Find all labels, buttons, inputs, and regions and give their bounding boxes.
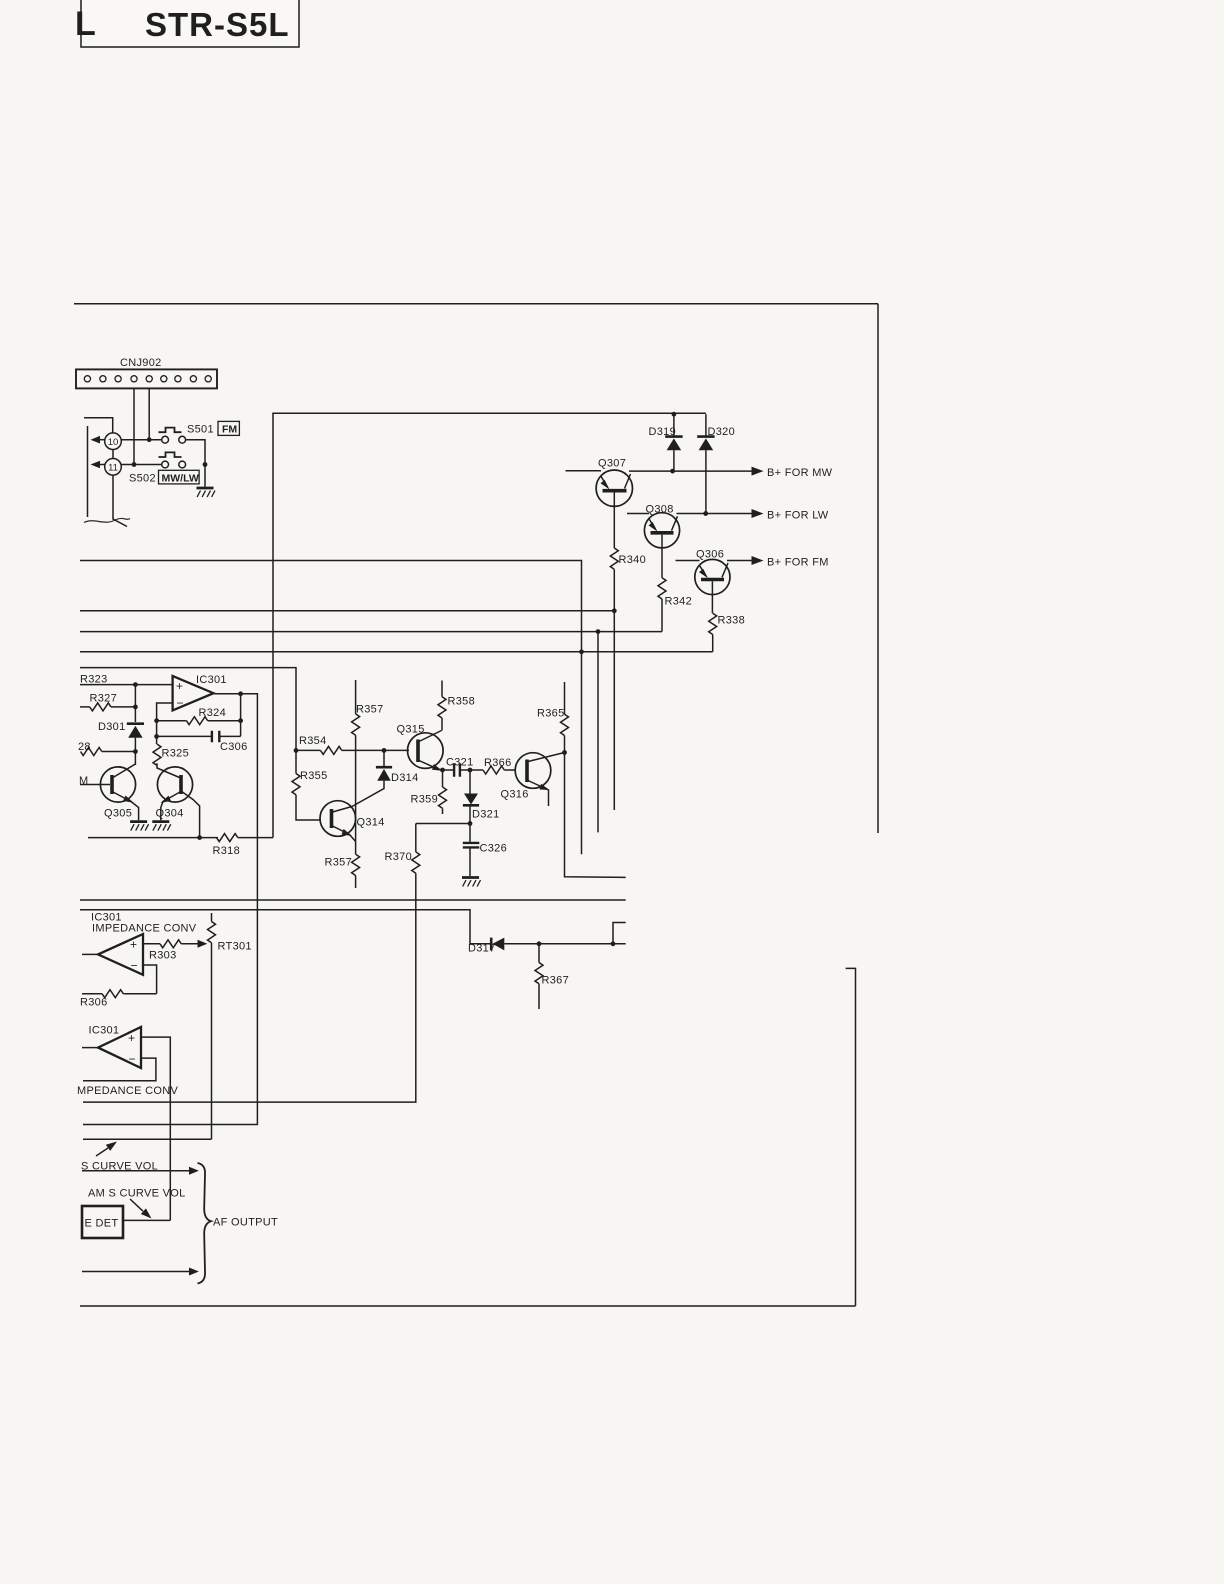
wire bus line 1 (FM band select) [80,561,582,855]
wire power-on line via D317 [80,910,491,944]
svg-text:D301: D301 [98,721,126,733]
label MW/LW box [159,470,200,484]
node junction [147,437,152,442]
brace AF OUTPUT [198,1163,212,1284]
svg-text:R357: R357 [356,704,384,716]
svg-text:R325: R325 [162,748,190,760]
svg-text:MW/LW: MW/LW [162,472,199,484]
svg-text:R357: R357 [325,857,353,869]
wire pin11 to S502 [121,464,161,466]
svg-text:R324: R324 [199,707,227,719]
wire pin10 arrow to left bus [99,439,105,441]
wire op-amp1 inverting network [143,965,157,994]
svg-text:Q316: Q316 [501,789,529,801]
diode D319 [673,414,675,436]
svg-text:STR-S5L: STR-S5L [145,6,290,43]
node junction D319 [672,412,677,417]
node pin 11 circle [105,459,122,476]
svg-text:R306: R306 [80,997,108,1009]
wire bus line 3 (to R342 / pin 7) [80,631,662,633]
svg-text:−: − [177,696,184,710]
svg-text:R342: R342 [665,596,693,608]
wire memo line (pin 4) [80,899,626,901]
svg-text:R366: R366 [484,757,512,769]
resistor R318 [217,834,238,842]
wire from connector pin to S501 line [148,388,150,439]
svg-text:11: 11 [108,463,118,474]
title box [81,0,299,47]
diode D320 [705,414,707,436]
svg-text:R338: R338 [718,615,746,627]
wire MUTE net vertical to bottom [846,968,856,1306]
transistor Q304 [157,767,192,802]
wire FM S-curve output with arrow to brace [82,1170,190,1172]
node emitter junction [440,768,445,773]
wire bottom boundary [80,1305,856,1307]
wire E DET output [123,1219,170,1221]
svg-text:+: + [130,938,137,952]
svg-text:IC301: IC301 [196,674,227,686]
wire B+ FOR MW line [629,470,752,472]
svg-text:−: − [131,959,138,973]
ground below switches [197,488,216,497]
wire below pin 11 with break mark [113,475,127,526]
wire top stub into pin circuit [84,418,113,433]
wire inverting input network [157,703,173,744]
wire op-amp2 output [82,1047,98,1049]
svg-text:R323: R323 [80,674,108,686]
svg-text:R359: R359 [411,794,439,806]
svg-text:Q304: Q304 [156,808,184,820]
wire emitter bus to R318 [88,837,218,839]
wire pin10 to S501 [121,439,161,441]
wire line to R354 network [80,668,296,751]
node C321 output junction [468,768,473,773]
ground below C326 [462,878,481,887]
svg-text:10: 10 [108,437,119,448]
resistor R338 [709,613,717,634]
svg-text:S502: S502 [129,473,156,485]
resistor R342 [658,578,666,599]
wire pin11 arrow to left bus [99,464,105,466]
wire op-amp2 + input to E DET line [141,1037,170,1220]
wire outer top boundary [74,303,878,305]
svg-text:R327: R327 [90,693,118,705]
svg-text:FM: FM [222,424,237,436]
svg-text:MPEDANCE CONV: MPEDANCE CONV [77,1085,178,1097]
wire lower output with arrow to brace [82,1271,190,1273]
node junction [132,462,137,467]
svg-text:+: + [128,1031,135,1045]
wire B+ FOR LW line [677,513,753,515]
svg-text:D319: D319 [649,426,677,438]
wire non-inverting input line [80,684,173,686]
svg-text:C326: C326 [480,843,508,855]
svg-text:L: L [75,5,96,43]
wire from connector pin to S502 line [133,388,135,464]
wire B+ FOR FM line [727,560,752,562]
switch S502 [159,452,186,468]
wire left vertical bus [87,426,89,517]
wire op-amp2 - feedback [83,1058,156,1081]
svg-text:B+ FOR LW: B+ FOR LW [767,509,829,521]
svg-text:B+ FOR FM: B+ FOR FM [767,556,829,568]
svg-text:AF OUTPUT: AF OUTPUT [213,1217,278,1229]
svg-text:R370: R370 [385,851,413,863]
label FM box [218,421,239,435]
node junction S-switch common [203,462,208,467]
svg-text:R354: R354 [299,735,327,747]
transistor Q314 [320,801,356,837]
wire to ground [204,465,206,487]
wire VT UP/DOWN to pin 5 [565,753,626,878]
svg-text:R340: R340 [619,554,647,566]
svg-text:−: − [129,1052,136,1066]
wire pin 3 branch [611,941,616,946]
svg-text:R358: R358 [448,696,476,708]
switch S501 [159,428,186,444]
wire S501 right to S502 right [186,440,205,465]
wire op-amp1 output [82,953,98,955]
svg-text:R367: R367 [542,975,570,987]
wire bus line 4 (to R338 / F-A junction) [80,651,713,653]
transistor Q305 [100,767,135,802]
svg-text:CNJ902: CNJ902 [120,357,162,369]
resistor R340 [610,548,618,569]
svg-text:D320: D320 [708,426,736,438]
wire outer right boundary (ends at brace cusp) [877,304,879,833]
wire between pin circles [112,450,114,459]
svg-text:D321: D321 [472,809,500,821]
svg-text:R303: R303 [149,950,177,962]
svg-text:R355: R355 [300,770,328,782]
svg-text:D314: D314 [391,772,419,784]
svg-text:C306: C306 [220,741,248,753]
svg-text:Q305: Q305 [104,808,132,820]
block E DET [82,1206,123,1238]
svg-text:R365: R365 [537,708,565,720]
svg-text:E DET: E DET [85,1218,119,1230]
svg-text:B+ FOR MW: B+ FOR MW [767,467,833,479]
wire tear mark [84,518,130,522]
node R365 / Q316 collector junction [562,750,567,755]
svg-text:RT301: RT301 [218,941,252,953]
svg-text:AM S CURVE VOL: AM S CURVE VOL [88,1188,186,1200]
svg-text:R318: R318 [213,845,241,857]
wire op-amp output / feedback [83,694,257,1125]
node pin 10 circle [105,433,122,450]
wire inner top rail [273,413,706,837]
svg-text:IC301: IC301 [89,1025,120,1037]
svg-text:Q314: Q314 [357,817,385,829]
svg-text:+: + [176,679,183,693]
svg-text:Q307: Q307 [598,458,626,470]
svg-text:IMPEDANCE CONV: IMPEDANCE CONV [92,923,197,935]
svg-text:S501: S501 [187,424,214,436]
wire bus line 2 (to R340 / pin 8) [80,610,614,612]
